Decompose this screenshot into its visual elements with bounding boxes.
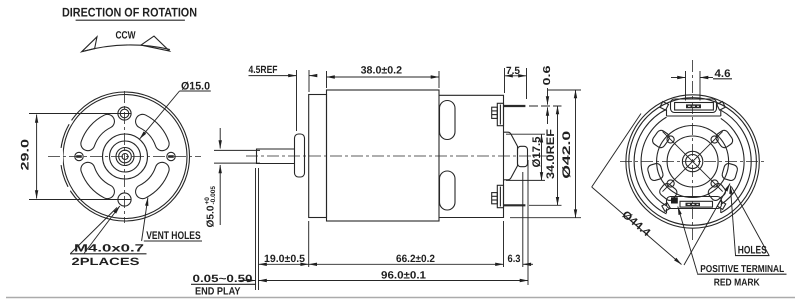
- end play double lines: [255, 168, 257, 290]
- rear vertical centerline: [692, 60, 694, 243]
- side centerline: [246, 155, 552, 157]
- crimp tab lower right: [717, 201, 725, 209]
- svg-text:HOLES: HOLES: [738, 245, 767, 257]
- rear vent hole NE: [714, 129, 734, 150]
- svg-text:38.0±0.2: 38.0±0.2: [361, 65, 403, 77]
- front bearing boss: [295, 134, 305, 177]
- crimp tab upper left: [660, 102, 669, 111]
- rear vent hole E: [721, 162, 738, 181]
- bottom terminal notch sides: [666, 209, 668, 214]
- front horizontal centerline: [48, 156, 201, 158]
- terminal bottom: comb: [492, 193, 498, 204]
- rear bearing cone: [504, 132, 518, 180]
- svg-text:4.6: 4.6: [715, 68, 731, 80]
- svg-text:96.0±0.1: 96.0±0.1: [381, 270, 426, 282]
- leader VENT HOLES: [142, 198, 148, 242]
- front outer rim circle: [61, 92, 190, 221]
- svg-text:END PLAY: END PLAY: [195, 286, 241, 298]
- rear horizontal centerline: [620, 161, 765, 163]
- rear brush card circle: [657, 126, 729, 198]
- rim notch small lower: [68, 187, 70, 191]
- dim 29.0 line: [36, 115, 38, 199]
- svg-text:6.3: 6.3: [508, 253, 521, 265]
- crimp tab lower left: [662, 203, 670, 211]
- svg-text:34.0REF: 34.0REF: [545, 129, 557, 179]
- svg-text:CCW: CCW: [116, 30, 136, 42]
- rivet holes: [667, 136, 674, 143]
- leader d15.0: [140, 91, 180, 139]
- svg-text:66.2±0.2: 66.2±0.2: [396, 253, 435, 265]
- terminal top: lug: [504, 105, 526, 107]
- svg-text:4.5REF: 4.5REF: [249, 64, 278, 76]
- rear diagonal centerline 2: [663, 131, 723, 191]
- rear hub circle: [667, 136, 718, 187]
- front vertical centerline: [124, 91, 126, 223]
- rear bearing cap: [518, 146, 528, 166]
- rear vent hole SW: [658, 182, 679, 203]
- hub circle 4: [119, 150, 132, 163]
- vent slot NW: [88, 121, 108, 143]
- title underline: [76, 19, 185, 21]
- svg-text:Ø42.0: Ø42.0: [561, 131, 573, 179]
- rear shaft inner circle: [686, 155, 700, 169]
- terminal bottom: lug: [504, 204, 526, 206]
- housing vent slot bottom: [440, 171, 456, 210]
- leader M4: [84, 206, 120, 254]
- rear housing circle (notched at terminals): [721, 118, 744, 204]
- rim notch big (9 o'clock): [59, 148, 64, 165]
- housing vent slot top: [440, 101, 456, 140]
- CCW left arrowhead (open): [82, 37, 97, 52]
- screw hole bottom M4: [118, 193, 131, 206]
- svg-text:RED MARK: RED MARK: [714, 278, 761, 289]
- svg-text:-0.005: -0.005: [210, 186, 217, 205]
- hub circle 3: [116, 148, 134, 166]
- screw hole top M4: [118, 107, 131, 120]
- red mark square: [671, 197, 678, 203]
- rear step circle (notched at terminals): [721, 110, 751, 213]
- leaders HOLES: [730, 186, 735, 256]
- hub circle 2: [110, 141, 141, 172]
- top terminal tab: [671, 99, 717, 113]
- terminal top: base block: [497, 103, 503, 125]
- CCW rotation arc: [82, 45, 170, 52]
- svg-text:DIRECTION OF ROTATION: DIRECTION OF ROTATION: [62, 6, 197, 20]
- side hole left: [75, 152, 83, 160]
- vent slot NE: [143, 121, 163, 143]
- svg-text:19.0±0.5: 19.0±0.5: [264, 253, 305, 265]
- sheet border line bottom: [6, 297, 795, 299]
- svg-text:0.6: 0.6: [542, 65, 553, 86]
- vent slot SE: [143, 169, 163, 191]
- leader to SE hole: [684, 184, 730, 266]
- top terminal notch chord: [667, 115, 721, 117]
- svg-text:VENT HOLES: VENT HOLES: [146, 230, 201, 242]
- hub circle d15: [103, 134, 148, 179]
- terminal bottom: base block: [497, 185, 503, 207]
- svg-text:POSITIVE TERMINAL: POSITIVE TERMINAL: [700, 264, 784, 275]
- terminal top: comb: [492, 107, 498, 118]
- rim notch small upper: [69, 120, 71, 124]
- dim 29.0 extension lines: [29, 113, 131, 115]
- rear shaft circle: [682, 151, 702, 171]
- svg-text:29.0: 29.0: [20, 139, 32, 171]
- motor can: [327, 90, 440, 221]
- dim d44.4: [592, 114, 641, 188]
- dim d5.0 tolerance: [204, 186, 217, 228]
- bottom terminal tab: [667, 197, 722, 209]
- svg-text:0.05~0.50: 0.05~0.50: [193, 273, 253, 285]
- svg-text:Ø5.0: Ø5.0: [206, 205, 217, 227]
- rear vent hole SE: [706, 182, 727, 203]
- rear outer circle: [626, 95, 759, 228]
- rear diagonal centerline 1: [663, 131, 723, 191]
- rear vent hole W: [647, 162, 664, 181]
- rear rim circle: [629, 98, 757, 226]
- shaft: [257, 149, 295, 164]
- side hole right: [167, 152, 175, 160]
- svg-text:7.5: 7.5: [506, 65, 520, 77]
- CCW right arrowhead (open): [141, 36, 170, 51]
- leader positive terminal to red mark: [678, 207, 698, 274]
- end play arrow: [240, 280, 256, 282]
- front inner rim circle: [63, 95, 187, 219]
- crimp tab upper right: [717, 102, 726, 111]
- svg-text:2PLACES: 2PLACES: [72, 256, 140, 268]
- rear housing outline: [439, 95, 504, 217]
- rear vent hole NW: [651, 129, 671, 150]
- front end plate: [309, 95, 327, 218]
- hub shaft circle: [122, 154, 128, 160]
- vent slot SW: [88, 169, 108, 191]
